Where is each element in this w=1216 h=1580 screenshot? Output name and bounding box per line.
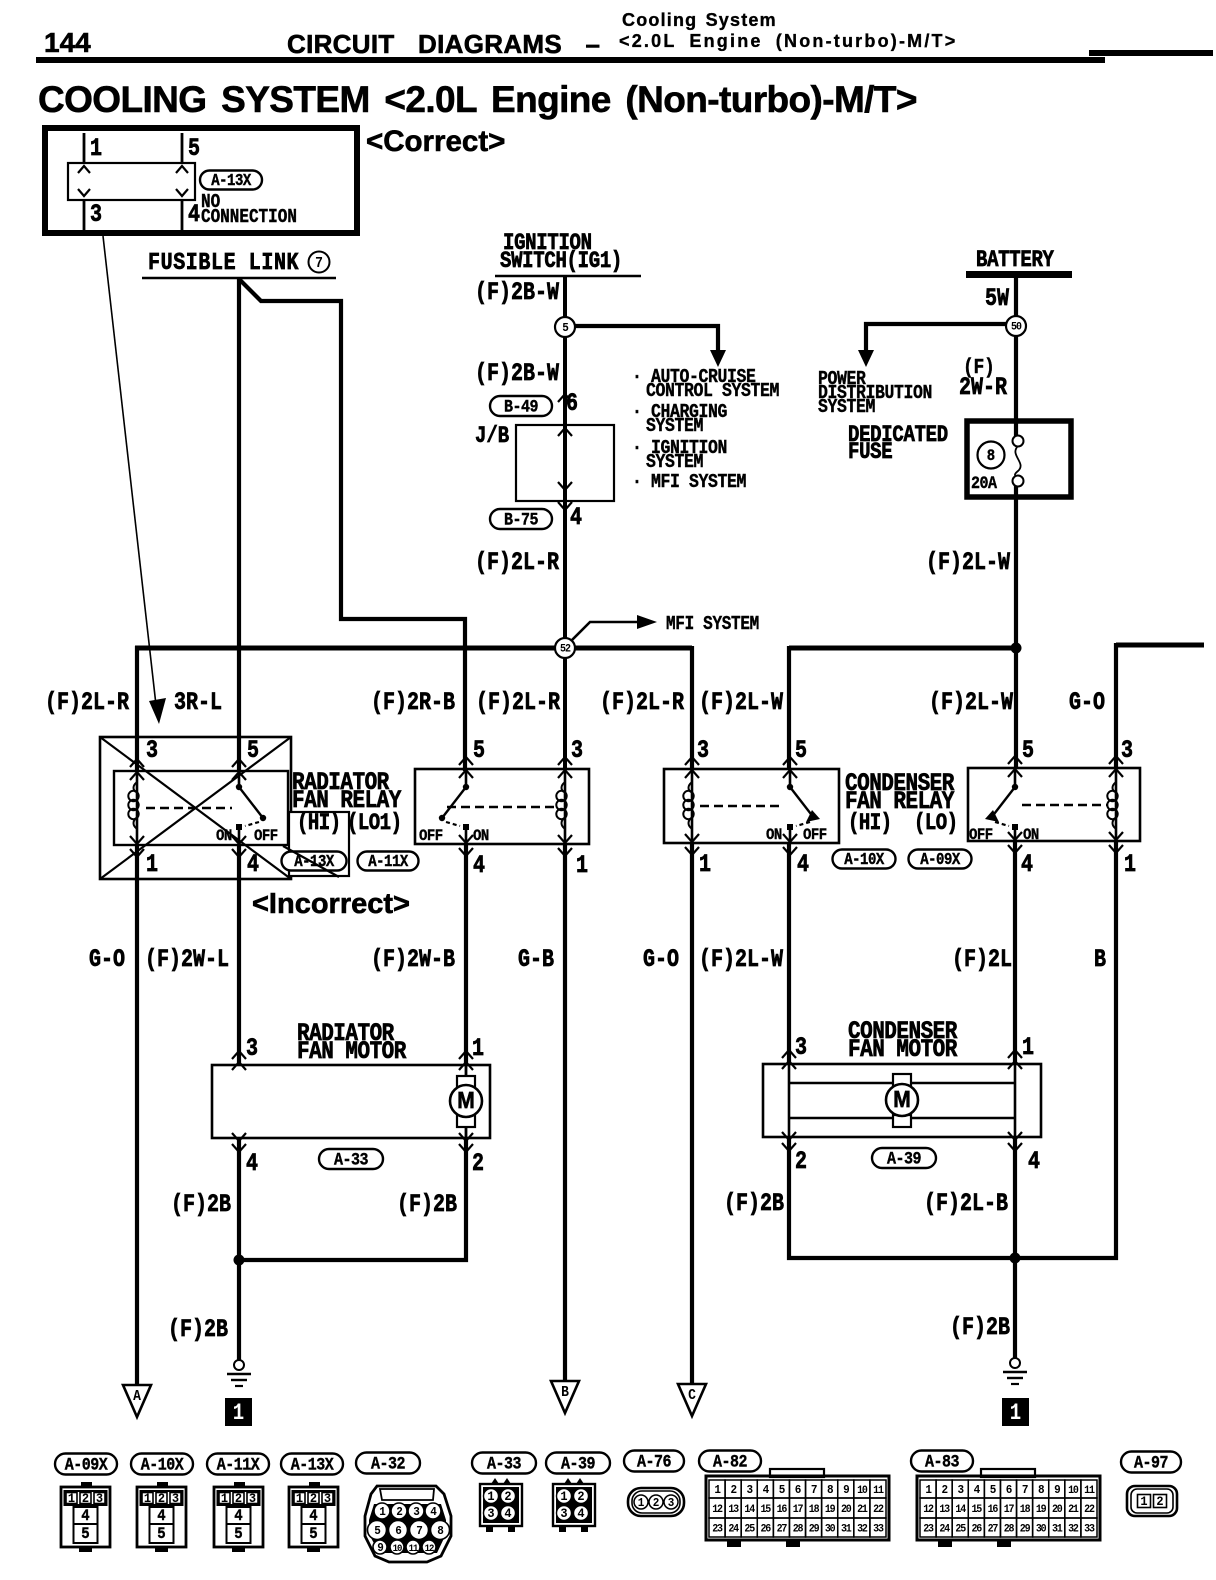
svg-text:2: 2: [730, 1484, 737, 1498]
off-page arrow A: [123, 1385, 151, 1417]
svg-text:2: 2: [82, 1492, 89, 1507]
svg-text:3: 3: [571, 736, 583, 765]
svg-text:(F)2L-B: (F)2L-B: [924, 1189, 1008, 1218]
relay A-10X dashed link: [700, 805, 780, 807]
svg-text:5W: 5W: [985, 284, 1009, 313]
wire bus down to condenser relay HI pin 3 (F)2L-R: [690, 646, 694, 769]
svg-text:(F)2L-R: (F)2L-R: [476, 688, 560, 717]
svg-text:13: 13: [939, 1504, 950, 1517]
svg-text:7: 7: [811, 1484, 818, 1498]
svg-text:6: 6: [566, 389, 578, 418]
svg-text:A-33: A-33: [487, 1453, 522, 1474]
connector B-75: [490, 509, 552, 529]
svg-text:(F)2L: (F)2L: [952, 945, 1012, 974]
condenser motor M symbol: [893, 1074, 911, 1086]
svg-text:3: 3: [697, 736, 709, 765]
svg-text:G-O: G-O: [643, 945, 679, 974]
connector A-97 pinout: [1121, 1452, 1181, 1473]
svg-text:FAN MOTOR: FAN MOTOR: [297, 1037, 406, 1065]
svg-text:29: 29: [1020, 1523, 1031, 1536]
svg-text:4: 4: [1021, 850, 1033, 879]
svg-text:17: 17: [793, 1504, 804, 1517]
svg-text:FUSE: FUSE: [848, 441, 892, 466]
ground ref black box 1 left: [225, 1398, 252, 1426]
svg-text:5: 5: [188, 134, 200, 163]
leader arrow from detail box to incorrect relay: [103, 236, 156, 705]
svg-text:A-09X: A-09X: [65, 1454, 108, 1475]
svg-text:A-09X: A-09X: [920, 850, 961, 870]
svg-text:3: 3: [795, 1033, 807, 1062]
svg-text:A-13X: A-13X: [291, 1454, 334, 1475]
svg-text:12: 12: [425, 1543, 435, 1555]
svg-text:9: 9: [1054, 1484, 1061, 1498]
svg-text:19: 19: [825, 1504, 836, 1517]
svg-text:A-76: A-76: [637, 1451, 672, 1472]
svg-text:A-10X: A-10X: [141, 1454, 184, 1475]
wire G-B relay A-11X pin1 down to ground arrow B: [563, 844, 567, 1382]
svg-text:3: 3: [96, 1492, 103, 1507]
svg-text:3: 3: [747, 1484, 754, 1498]
detail box (correct A-13X no-connection): [45, 128, 357, 233]
svg-text:3: 3: [958, 1484, 965, 1498]
svg-text:1: 1: [699, 850, 711, 879]
wire B relay A-09X pin1 down to junction: [1015, 841, 1116, 1258]
relay radiator fan HI (incorrect, A-13X) outer box: [100, 737, 291, 879]
svg-text:1: 1: [1022, 1033, 1034, 1062]
svg-text:M: M: [893, 1086, 910, 1112]
svg-text:2W-R: 2W-R: [959, 373, 1007, 402]
condenser motor pin marks and numbers: [782, 1050, 796, 1058]
svg-text:16: 16: [777, 1504, 788, 1517]
svg-text:4: 4: [188, 200, 200, 229]
wire G-O relay A-13X pin1 down to ground arrow A: [135, 845, 139, 1386]
svg-text:33: 33: [873, 1523, 884, 1536]
svg-text:1: 1: [1124, 850, 1136, 879]
svg-text:4: 4: [577, 1507, 585, 1522]
svg-text:OFF: OFF: [254, 826, 278, 845]
svg-text:C: C: [688, 1389, 696, 1405]
svg-text:26: 26: [761, 1523, 772, 1536]
svg-text:COOLING SYSTEM <2.0L Engine (N: COOLING SYSTEM <2.0L Engine (Non-turbo)-…: [38, 79, 917, 120]
svg-text:33: 33: [1084, 1523, 1095, 1536]
svg-text:24: 24: [728, 1523, 739, 1536]
pin 5 stub: [181, 133, 184, 163]
svg-text:J/B: J/B: [475, 425, 510, 450]
svg-text:3: 3: [246, 1034, 258, 1063]
svg-text:5: 5: [81, 1524, 89, 1543]
svg-text:26: 26: [972, 1523, 983, 1536]
svg-text:11: 11: [409, 1543, 419, 1555]
bus wire left segment: [135, 646, 692, 651]
wire bus down to condenser relay HI pin 5 (F)2L-W: [787, 646, 791, 769]
junction 52 MFI: [555, 638, 575, 658]
svg-text:(F)2B-W: (F)2B-W: [475, 278, 559, 307]
svg-text:5: 5: [309, 1524, 317, 1543]
svg-text:4: 4: [234, 1506, 242, 1525]
svg-text:(F)2W-L: (F)2W-L: [145, 945, 229, 974]
svg-text:10: 10: [857, 1485, 868, 1498]
svg-text:ON: ON: [1023, 825, 1039, 844]
arrow to MFI system: [571, 622, 638, 641]
svg-text:A-33: A-33: [334, 1149, 369, 1170]
svg-text:A-97: A-97: [1134, 1452, 1168, 1473]
svg-text:4: 4: [974, 1484, 981, 1498]
cross-out X over incorrect relay: [100, 737, 291, 879]
svg-text:4: 4: [309, 1506, 317, 1525]
svg-text:4: 4: [1028, 1147, 1040, 1176]
svg-text:4: 4: [570, 503, 582, 532]
svg-text:15: 15: [972, 1504, 983, 1517]
svg-text:20A: 20A: [971, 473, 997, 494]
svg-text:27: 27: [777, 1523, 788, 1536]
svg-text:4: 4: [763, 1484, 770, 1498]
connector A-39 pinout: [546, 1453, 610, 1474]
svg-text:MFI SYSTEM: MFI SYSTEM: [666, 614, 759, 636]
svg-text:FUSIBLE LINK: FUSIBLE LINK: [148, 249, 299, 276]
svg-text:2: 2: [1156, 1495, 1163, 1510]
pin 1 stub: [83, 133, 86, 163]
svg-text:A-32: A-32: [371, 1453, 405, 1474]
svg-text:5: 5: [157, 1524, 165, 1543]
svg-text:ON: ON: [473, 826, 489, 845]
svg-text:<2.0L Engine (Non-turbo)-M/T>: <2.0L Engine (Non-turbo)-M/T>: [619, 31, 957, 51]
svg-text:5: 5: [1022, 736, 1034, 765]
svg-text:OFF: OFF: [419, 826, 443, 845]
svg-text:2: 2: [941, 1484, 948, 1498]
svg-text:1: 1: [68, 1492, 76, 1507]
svg-text:(LO1): (LO1): [347, 812, 401, 837]
svg-text:2: 2: [504, 1490, 511, 1505]
svg-text:· MFI SYSTEM: · MFI SYSTEM: [632, 472, 746, 494]
relay A-11X switch: [465, 769, 468, 787]
svg-text:(F)2B: (F)2B: [950, 1313, 1010, 1342]
ground symbol right: [1010, 1358, 1020, 1368]
svg-text:(F)2L-W: (F)2L-W: [699, 688, 783, 717]
svg-text:A-39: A-39: [887, 1148, 921, 1169]
svg-text:4: 4: [473, 851, 485, 880]
relay A-11X pin connector marks: [459, 757, 473, 765]
svg-text:1: 1: [487, 1490, 495, 1505]
svg-text:(HI): (HI): [297, 812, 341, 837]
svg-text:(F)2L-R: (F)2L-R: [600, 688, 684, 717]
connector A-11X pinout: [207, 1454, 269, 1475]
relay radiator fan HI inner box: [114, 771, 288, 845]
svg-text:3: 3: [249, 1492, 256, 1507]
svg-text:5: 5: [473, 736, 485, 765]
svg-text:(F)2W-B: (F)2W-B: [371, 945, 455, 974]
tag A-09X: [909, 850, 972, 869]
wire (F)2L-W relay A-10X pin4 down to condenser motor pin 3: [787, 843, 791, 1064]
svg-text:(F)2B: (F)2B: [171, 1190, 231, 1219]
svg-text:B-75: B-75: [504, 509, 539, 530]
relay A-13X coil: [136, 771, 139, 845]
svg-text:<Incorrect>: <Incorrect>: [252, 888, 410, 920]
svg-text:25: 25: [955, 1523, 966, 1536]
svg-text:G-B: G-B: [518, 945, 554, 974]
tag A-13X crossed: [282, 852, 347, 871]
wire 3R-L fusible link down to radiator fan relay pin 5: [237, 279, 241, 771]
svg-text:14: 14: [955, 1504, 966, 1517]
relay A-11X coil: [564, 769, 567, 844]
connector A-13X body: [68, 163, 195, 200]
connector A-82 pinout: [699, 1451, 761, 1472]
wire (F)2W-L relay A-13X pin4 down to radiator motor pin 3: [237, 845, 241, 1065]
tag A-33: [319, 1149, 383, 1169]
svg-text:12: 12: [923, 1504, 934, 1517]
svg-text:22: 22: [873, 1504, 884, 1517]
bus wire right segment: [1116, 643, 1204, 648]
condenser fan motor box: [763, 1064, 1041, 1137]
svg-text:52: 52: [560, 643, 571, 656]
wire battery 5W / (F)2W-R / (F)2L-W: [1014, 278, 1018, 769]
svg-text:<Correct>: <Correct>: [366, 125, 505, 158]
svg-text:3: 3: [324, 1492, 331, 1507]
junction 50: [1006, 316, 1026, 336]
wire ignition feed (F)2B-W / (F)2L-R down to junction 52 and relay pin 3: [563, 277, 567, 769]
junction dot condenser ground: [1010, 1253, 1021, 1264]
svg-text:20: 20: [1052, 1504, 1063, 1517]
svg-text:16: 16: [988, 1504, 999, 1517]
svg-text:17: 17: [1004, 1504, 1015, 1517]
relay A-10X switch: [789, 769, 792, 787]
svg-text:A: A: [133, 1390, 142, 1406]
svg-text:3: 3: [560, 1507, 567, 1522]
svg-text:(F)2B: (F)2B: [397, 1190, 457, 1219]
svg-text:30: 30: [825, 1523, 836, 1536]
relay A-13X pin connector marks: [130, 759, 144, 767]
junction dot radiator ground: [234, 1255, 245, 1266]
svg-text:(F)2L-W: (F)2L-W: [926, 548, 1010, 577]
svg-text:4: 4: [797, 850, 809, 879]
ground ref black box 1 right: [1002, 1398, 1029, 1426]
svg-text:1: 1: [146, 850, 158, 879]
svg-text:A-13X: A-13X: [211, 171, 252, 191]
svg-text:25: 25: [744, 1523, 755, 1536]
svg-text:OFF: OFF: [969, 825, 993, 844]
connector B-49: [490, 396, 552, 416]
svg-text:(F)2L-R: (F)2L-R: [475, 548, 559, 577]
svg-text:1: 1: [925, 1484, 932, 1498]
svg-text:CONNECTION: CONNECTION: [201, 207, 297, 229]
connector A-33 pinout: [472, 1453, 536, 1474]
relay A-10X pin connector marks: [685, 757, 699, 765]
svg-text:28: 28: [793, 1523, 804, 1536]
wire G-O relay A-10X pin1 down to ground arrow C: [690, 843, 694, 1385]
wire (F)2W-B relay A-11X pin4 down to radiator motor pin 1: [464, 844, 468, 1065]
svg-text:A-39: A-39: [561, 1453, 595, 1474]
connector A-10X pinout: [131, 1454, 193, 1475]
svg-text:4: 4: [157, 1506, 165, 1525]
svg-text:1: 1: [221, 1492, 229, 1507]
svg-text:8: 8: [827, 1484, 834, 1498]
svg-text:3: 3: [487, 1507, 494, 1522]
svg-text:1: 1: [714, 1484, 721, 1498]
svg-text:1: 1: [90, 134, 102, 163]
wire bus corner down to radiator relay HI pin 3 G-O: [135, 646, 139, 771]
wire (F)2L relay A-09X pin4 down to condenser motor pin 1: [1013, 841, 1017, 1064]
svg-text:2: 2: [577, 1490, 584, 1505]
relay A-13X switch: [238, 771, 241, 787]
tag A-11X: [358, 852, 419, 871]
svg-text:SWITCH(IG1): SWITCH(IG1): [500, 250, 622, 275]
tag A-10X: [833, 850, 896, 869]
connector A-32 pinout: [356, 1453, 420, 1474]
svg-text:29: 29: [809, 1523, 820, 1536]
tag A-13X: [200, 171, 262, 190]
svg-text:1: 1: [233, 1402, 244, 1427]
header rule: [36, 57, 1105, 63]
svg-text:2: 2: [653, 1497, 660, 1511]
pin 3 stub: [83, 200, 86, 231]
svg-text:A-82: A-82: [713, 1451, 747, 1472]
svg-text:8: 8: [987, 448, 996, 465]
svg-text:12: 12: [712, 1504, 723, 1517]
relay A-13X dashed link: [146, 807, 232, 809]
svg-text:18: 18: [1020, 1504, 1031, 1517]
relay A-10X coil: [691, 769, 694, 843]
svg-text:(F)2B: (F)2B: [724, 1189, 784, 1218]
svg-text:(LO): (LO): [914, 812, 958, 837]
svg-text:5: 5: [990, 1484, 997, 1498]
svg-text:1: 1: [638, 1497, 645, 1511]
svg-text:32: 32: [1068, 1523, 1079, 1536]
svg-text:B-49: B-49: [504, 396, 538, 417]
relay condenser fan LO (A-09X) box: [968, 768, 1140, 841]
svg-text:13: 13: [728, 1504, 739, 1517]
svg-text:OFF: OFF: [803, 825, 827, 844]
svg-text:18: 18: [809, 1504, 820, 1517]
wire radiator motor pin2 to junction: [239, 1138, 466, 1260]
svg-text:1: 1: [560, 1490, 568, 1505]
svg-text:15: 15: [761, 1504, 772, 1517]
svg-text:(F)2L-R: (F)2L-R: [45, 688, 129, 717]
svg-text:8: 8: [1038, 1484, 1045, 1498]
svg-text:2: 2: [235, 1492, 242, 1507]
relay A-09X dashed link: [1022, 804, 1107, 806]
svg-text:CIRCUIT DIAGRAMS –: CIRCUIT DIAGRAMS –: [287, 29, 600, 59]
svg-text:2: 2: [158, 1492, 165, 1507]
connector A-13X pinout: [281, 1454, 343, 1475]
svg-text:1: 1: [1140, 1495, 1148, 1510]
tag A-39: [872, 1148, 936, 1168]
svg-text:27: 27: [988, 1523, 999, 1536]
svg-text:3: 3: [172, 1492, 179, 1507]
wire condenser motor pin4 to ground: [1013, 1137, 1017, 1358]
svg-text:2: 2: [472, 1149, 484, 1178]
connector A-83 pinout: [911, 1451, 973, 1472]
svg-text:5: 5: [795, 736, 807, 765]
svg-text:11: 11: [1084, 1485, 1095, 1498]
svg-text:3: 3: [90, 200, 102, 229]
svg-text:(F)2B: (F)2B: [168, 1315, 228, 1344]
svg-text:(F)2L-W: (F)2L-W: [929, 688, 1013, 717]
radiator fan motor box: [212, 1065, 490, 1138]
svg-text:1: 1: [576, 851, 588, 880]
ground symbol left: [234, 1360, 244, 1370]
relay A-09X coil: [1115, 768, 1118, 841]
svg-text:BATTERY: BATTERY: [976, 249, 1054, 274]
svg-text:30: 30: [1036, 1523, 1047, 1536]
svg-text:Cooling System: Cooling System: [622, 10, 777, 30]
bus wire middle segment: [789, 646, 1018, 651]
svg-text:6: 6: [795, 1484, 802, 1498]
pin 4 stub: [181, 200, 184, 231]
svg-text:2: 2: [310, 1492, 317, 1507]
connector A-76 pinout: [624, 1451, 684, 1472]
relay A-09X pin connector marks: [1008, 756, 1022, 764]
svg-text:1: 1: [1010, 1402, 1021, 1427]
svg-text:3: 3: [668, 1497, 675, 1511]
svg-text:4: 4: [81, 1506, 89, 1525]
svg-text:6: 6: [1006, 1484, 1013, 1498]
svg-text:19: 19: [1036, 1504, 1047, 1517]
svg-text:(HI): (HI): [848, 812, 892, 837]
annotation patch box around (HI) tag: [289, 812, 349, 876]
relay radiator fan LO1 (A-11X) box: [415, 769, 589, 844]
svg-text:5: 5: [779, 1484, 786, 1498]
svg-text:G-O: G-O: [1069, 688, 1105, 717]
svg-text:4: 4: [504, 1507, 512, 1522]
wire bus down to condenser relay LO pin 3 G-O: [1114, 643, 1118, 768]
svg-text:9: 9: [843, 1484, 850, 1498]
svg-text:(F)2L-W: (F)2L-W: [699, 945, 783, 974]
svg-text:21: 21: [857, 1504, 868, 1517]
svg-text:G-O: G-O: [89, 945, 125, 974]
connector A-09X pinout: [55, 1454, 117, 1475]
svg-text:A-83: A-83: [925, 1451, 960, 1472]
svg-text:5: 5: [234, 1524, 242, 1543]
branch wire to power distribution system: [866, 324, 1016, 352]
svg-text:A-10X: A-10X: [844, 850, 885, 870]
svg-text:(F)2B-W: (F)2B-W: [475, 359, 559, 388]
relay condenser fan HI (A-10X) box: [664, 769, 839, 843]
svg-text:4: 4: [246, 1149, 258, 1178]
svg-text:23: 23: [923, 1523, 934, 1536]
svg-text:23: 23: [712, 1523, 723, 1536]
svg-text:SYSTEM: SYSTEM: [646, 452, 703, 474]
condenser motor internal rails: [788, 1064, 791, 1137]
svg-text:32: 32: [857, 1523, 868, 1536]
svg-text:B: B: [561, 1386, 569, 1402]
junction 5: [555, 317, 575, 337]
dedicated fuse 8 20A: [967, 421, 1071, 497]
branch wire to other systems: [565, 326, 718, 352]
svg-text:3: 3: [1121, 736, 1133, 765]
svg-text:22: 22: [1084, 1504, 1095, 1517]
bus junction dot battery: [1011, 643, 1022, 654]
svg-text:20: 20: [841, 1504, 852, 1517]
svg-text:5: 5: [247, 736, 259, 765]
svg-text:7: 7: [315, 257, 323, 273]
svg-text:31: 31: [841, 1523, 852, 1536]
svg-text:31: 31: [1052, 1523, 1063, 1536]
svg-text:CONTROL SYSTEM: CONTROL SYSTEM: [646, 381, 779, 403]
svg-text:(F)2R-B: (F)2R-B: [371, 688, 455, 717]
radiator motor pin marks and numbers: [232, 1051, 246, 1059]
relay A-11X dashed link: [447, 806, 556, 808]
svg-text:144: 144: [44, 27, 91, 58]
svg-text:10: 10: [393, 1543, 403, 1555]
svg-text:28: 28: [1004, 1523, 1015, 1536]
svg-text:10: 10: [1068, 1485, 1079, 1498]
svg-text:1: 1: [144, 1492, 152, 1507]
svg-text:B: B: [1094, 945, 1106, 974]
svg-text:SYSTEM: SYSTEM: [646, 416, 703, 438]
svg-text:A-11X: A-11X: [368, 852, 409, 872]
svg-text:M: M: [457, 1087, 474, 1113]
svg-text:2: 2: [795, 1147, 807, 1176]
svg-text:1: 1: [472, 1034, 484, 1063]
